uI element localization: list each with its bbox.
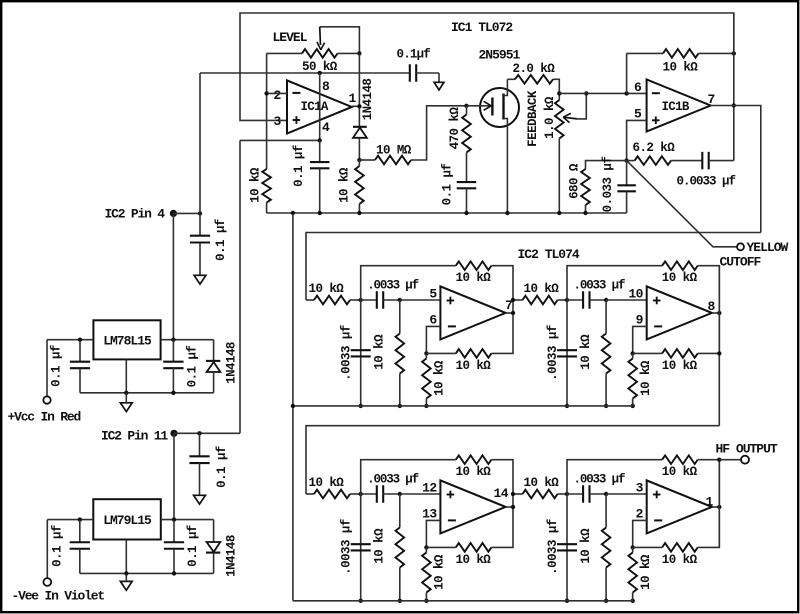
junction stage input node <box>565 298 569 302</box>
label .0033 µf shunt <box>340 325 354 381</box>
junction pin- node <box>631 351 635 355</box>
wire pot-left vertical <box>266 53 268 169</box>
svg-text:.0033 µf: .0033 µf <box>574 473 625 487</box>
capacitor .0033 shunt <box>557 494 577 601</box>
terminal HF OUTPUT <box>741 456 749 464</box>
svg-text:0.1 µf: 0.1 µf <box>185 346 199 388</box>
op-amp minus <box>448 325 456 327</box>
op-amp plus <box>447 297 455 305</box>
svg-text:6.2 kΩ: 6.2 kΩ <box>633 141 676 155</box>
junction bus 559 <box>557 211 561 215</box>
svg-text:10 kΩ: 10 kΩ <box>524 476 560 490</box>
svg-text:IC1 TL072: IC1 TL072 <box>451 20 513 35</box>
svg-text:0.033 µf: 0.033 µf <box>601 157 615 213</box>
op-amp IC1B <box>647 80 711 132</box>
svg-text:HF OUTPUT: HF OUTPUT <box>716 441 778 456</box>
label 0.033 µf <box>601 157 615 213</box>
node IC2 Pin 4 <box>170 210 177 217</box>
junction bus 319 <box>318 211 322 215</box>
label 0.1 µf source <box>441 164 455 206</box>
resistor 10k feedback bottom <box>426 507 513 552</box>
junction 79 out cap bus <box>172 571 176 575</box>
resistor 10k stage input <box>306 490 361 499</box>
label 1.0 kΩ <box>543 96 557 139</box>
wire opamp out <box>712 506 719 508</box>
svg-text:10 kΩ: 10 kΩ <box>662 553 698 567</box>
wire pin- <box>426 326 440 353</box>
label 10 kΩ shunt <box>579 334 593 370</box>
op-amp IC1A minus <box>292 92 300 94</box>
svg-text:680 Ω: 680 Ω <box>568 163 582 199</box>
junction bus 359 <box>357 211 361 215</box>
label +Vcc In Red <box>8 409 81 424</box>
label 10 kΩ gnd <box>639 554 653 590</box>
svg-text:2N5951: 2N5951 <box>479 48 521 63</box>
wire opamp out <box>712 312 719 314</box>
diode 1N4148 D3 <box>206 520 220 574</box>
junction pot right end <box>357 51 361 55</box>
junction shuntC bus <box>359 599 363 603</box>
node IC2 Pin 11 <box>170 430 177 437</box>
op-amp minus <box>448 519 456 521</box>
junction 79 out rail <box>172 517 176 521</box>
label 0.1 µf pin4 bypass <box>214 219 228 261</box>
wire middle bus <box>293 405 633 407</box>
junction bus 292 <box>291 211 295 215</box>
label 10 kΩ shunt <box>579 528 593 564</box>
svg-text:10 kΩ: 10 kΩ <box>663 61 699 75</box>
wire pin6 rail <box>559 92 646 94</box>
op-amp stage <box>647 286 712 339</box>
pin label -in <box>422 507 437 522</box>
label IC1A <box>301 100 329 114</box>
svg-text:10 kΩ: 10 kΩ <box>456 359 492 373</box>
pin label -in <box>636 313 644 328</box>
svg-text:.0033 µf: .0033 µf <box>546 325 560 381</box>
label LEVEL <box>273 30 308 45</box>
wire rail to 78L15 <box>172 213 174 339</box>
label CUTOFF <box>720 254 762 269</box>
wire 78 gnd stem <box>125 393 127 403</box>
svg-text:3: 3 <box>636 481 644 496</box>
pot FEEDBACK wiper <box>563 93 586 122</box>
pin label out <box>494 486 509 501</box>
label 0.1 µf 79 out <box>186 525 200 567</box>
resistor 10k feedback top <box>567 455 719 507</box>
label 10 kΩ fbbot <box>662 359 698 373</box>
label 10 kΩ gnd <box>433 360 447 396</box>
label 10 kΩ vertical diode <box>338 167 352 203</box>
wire pin+ input <box>400 299 441 301</box>
capacitor 0.1uf 79 input <box>70 520 90 574</box>
resistor 10k interstage A <box>513 296 567 305</box>
svg-text:0.1µf: 0.1µf <box>397 48 431 62</box>
label .0033 µf shunt <box>546 519 560 575</box>
resistor 10k feedback top <box>567 261 719 313</box>
wire 78 gnd lead <box>125 359 127 392</box>
svg-text:0.1 µf: 0.1 µf <box>292 145 306 187</box>
svg-text:10 kΩ: 10 kΩ <box>639 554 653 590</box>
svg-text:LM78L15: LM78L15 <box>103 334 152 349</box>
junction pin4 <box>318 138 322 142</box>
svg-text:0.1 µf: 0.1 µf <box>50 345 64 387</box>
svg-text:CUTOFF: CUTOFF <box>720 254 762 269</box>
label 10 kΩ fbtop <box>662 271 698 285</box>
junction bus 585 <box>583 211 587 215</box>
label 10 kΩ fbbot <box>662 553 698 567</box>
label 0.1 µf 78 in <box>50 345 64 387</box>
svg-text:LEVEL: LEVEL <box>273 30 308 45</box>
svg-text:IC1B: IC1B <box>662 100 690 114</box>
svg-text:5: 5 <box>429 287 437 302</box>
wire pin5 <box>627 120 647 160</box>
svg-text:.0033 µf: .0033 µf <box>340 519 354 575</box>
terminal +Vcc <box>43 396 50 403</box>
wire 78 input <box>47 340 93 397</box>
label IC2 Pin 11 <box>101 429 168 444</box>
junction wiper <box>584 91 588 95</box>
op-amp IC1A plus <box>293 116 301 124</box>
resistor 6.2k <box>627 156 703 165</box>
capacitor .0033 shunt <box>557 300 577 406</box>
op-amp plus <box>653 297 661 305</box>
wire cutoff diagonal <box>627 161 737 247</box>
op-amp stage <box>647 480 712 533</box>
ground arrow pin11 bypass <box>194 495 206 504</box>
wire gnd riser <box>292 213 294 601</box>
op-amp minus <box>654 325 662 327</box>
junction out <box>717 505 721 509</box>
junction HF node <box>717 458 721 462</box>
wire pin- <box>426 520 440 547</box>
pin label -in <box>636 507 644 522</box>
junction shuntC bus <box>359 404 363 408</box>
pin label +in <box>429 287 437 302</box>
resistor 10k shunt <box>602 494 611 601</box>
pin label +in <box>636 481 644 496</box>
junction gate-470k <box>464 104 468 108</box>
label 6.2 kΩ <box>633 141 676 155</box>
svg-text:12: 12 <box>422 481 437 496</box>
svg-text:6: 6 <box>634 80 642 95</box>
svg-text:IC2 Pin 11: IC2 Pin 11 <box>101 429 168 444</box>
pin label +in <box>422 481 437 496</box>
resistor 10k shunt <box>396 300 405 406</box>
svg-text:10 kΩ: 10 kΩ <box>662 359 698 373</box>
label 1N4148 D1 <box>361 79 375 121</box>
junction shuntC bus <box>565 599 569 603</box>
junction stage node2 <box>604 298 608 302</box>
capacitor 0.1uf pin11 bypass <box>189 433 209 495</box>
pin label 2 <box>274 88 282 103</box>
capacitor .0033 series <box>567 485 606 503</box>
label 10 kΩ shunt <box>373 334 387 370</box>
svg-text:0.1 µf: 0.1 µf <box>50 525 64 567</box>
wire 79 bottom <box>80 572 214 574</box>
svg-text:10 kΩ: 10 kΩ <box>662 465 698 479</box>
svg-text:3: 3 <box>274 114 282 129</box>
resistor 10k to gnd <box>628 547 637 600</box>
wire 79 gnd lead <box>125 540 127 574</box>
regulator LM79L15 U3 <box>93 499 161 539</box>
op-amp plus <box>447 491 455 499</box>
svg-text:10 kΩ: 10 kΩ <box>309 476 345 490</box>
label 10 kΩ stage input <box>309 282 345 296</box>
resistor 10k stage input <box>306 296 361 305</box>
junction stage2 fbb <box>717 351 721 355</box>
svg-text:.0033 µf: .0033 µf <box>340 325 354 381</box>
svg-text:13: 13 <box>422 507 437 522</box>
wire top feedback (IC1B pin7 to IC1A pin3) <box>240 13 734 120</box>
svg-text:+Vcc In Red: +Vcc In Red <box>8 409 81 424</box>
resistor 10k feedback bottom <box>426 313 513 358</box>
capacitor 0.1uf 78 output <box>163 340 183 393</box>
resistor 10k to gnd <box>422 547 431 600</box>
capacitor 0.1uf source filter <box>457 153 477 214</box>
junction fb right <box>732 51 736 55</box>
junction shuntR bus <box>398 599 402 603</box>
label 0.0033 µf IC1B <box>677 175 736 189</box>
junction stage input node <box>359 298 363 302</box>
svg-text:IC2 Pin 4: IC2 Pin 4 <box>105 207 166 222</box>
junction 79 in cap <box>78 517 82 521</box>
resistor 10k under diode <box>355 160 364 213</box>
resistor 10k pin2-gnd <box>262 169 271 213</box>
resistor 2.0k <box>507 75 559 100</box>
svg-text:4: 4 <box>322 120 330 135</box>
op-amp stage <box>440 480 505 533</box>
label 1N4148 D3 <box>225 535 239 577</box>
capacitor .0033 series <box>567 291 606 309</box>
svg-text:5: 5 <box>634 107 642 122</box>
label 0.1 µf pin11 bypass <box>215 446 229 488</box>
diode 1N4148 D2 <box>206 340 220 393</box>
label 10 kΩ IC1B fb <box>663 61 699 75</box>
pin label -in <box>429 313 437 328</box>
svg-text:2.0 kΩ: 2.0 kΩ <box>513 62 556 76</box>
capacitor 0.1uf pin4 bypass <box>190 213 210 275</box>
wire stage2 out riser <box>718 266 720 426</box>
resistor 10k feedback bottom <box>633 507 720 552</box>
wire pin8-pin4 vertical <box>319 73 321 140</box>
capacitor 0.1uf 79 output <box>164 520 184 574</box>
label HF OUTPUT <box>716 441 778 456</box>
label 470 kΩ <box>448 107 462 150</box>
wire opamp out <box>506 312 513 314</box>
svg-text:0.0033 µf: 0.0033 µf <box>677 175 736 189</box>
label .0033 µf series <box>574 279 625 293</box>
label -Vee In Violet <box>12 588 105 603</box>
label 10 kΩ shunt <box>373 528 387 564</box>
junction pin- node <box>424 545 428 549</box>
pin label 1 <box>349 91 357 106</box>
svg-text:2: 2 <box>636 507 644 522</box>
junction out <box>511 311 515 315</box>
resistor 470k <box>462 106 471 153</box>
svg-text:1.0 kΩ: 1.0 kΩ <box>543 96 557 139</box>
svg-text:10 kΩ: 10 kΩ <box>456 553 492 567</box>
label 680 Ω <box>568 163 582 199</box>
pin label 4 <box>322 120 330 135</box>
capacitor 0.1uf pin4 bypass <box>310 140 330 213</box>
ground arrow pin4 bypass <box>194 275 206 284</box>
svg-text:10 kΩ: 10 kΩ <box>579 334 593 370</box>
resistor 680 <box>581 161 626 213</box>
junction pin6 tap <box>624 91 628 95</box>
svg-text:10 kΩ: 10 kΩ <box>373 334 387 370</box>
junction stage input node <box>359 492 363 496</box>
wire pin2 <box>267 92 287 94</box>
pin label 7 <box>708 92 715 107</box>
label 10 kΩ fbtop <box>662 465 698 479</box>
label 10 kΩ vertical pin2 <box>249 167 263 203</box>
label 10 kΩ gnd <box>639 360 653 396</box>
junction interstage B <box>511 492 515 496</box>
capacitor .0033 shunt <box>351 494 371 601</box>
label 10 kΩ interstage B <box>524 476 560 490</box>
svg-text:10 kΩ: 10 kΩ <box>456 465 492 479</box>
ground arrow V+ bypass <box>434 82 444 90</box>
pin label 6 <box>634 80 642 95</box>
label YELLOW <box>747 240 789 255</box>
svg-text:LM79L15: LM79L15 <box>103 513 152 528</box>
junction stage node2 <box>398 298 402 302</box>
wire pin11 rail <box>174 432 240 434</box>
junction gndR bus <box>631 404 635 408</box>
svg-text:10 kΩ: 10 kΩ <box>309 282 345 296</box>
ground arrow 78 <box>120 403 132 412</box>
label 0.1 µf pin4cap <box>292 145 306 187</box>
capacitor 0.1uf V+ bypass <box>410 64 439 82</box>
wire top circuit bus <box>267 212 627 214</box>
wire 78 output <box>161 339 214 341</box>
svg-text:10 kΩ: 10 kΩ <box>662 271 698 285</box>
label 1N4148 D2 <box>224 342 238 384</box>
junction shuntR bus <box>604 599 608 603</box>
pot LEVEL wiper arm wire <box>320 27 360 54</box>
junction pin4 bypass <box>198 211 202 215</box>
svg-text:10 kΩ: 10 kΩ <box>373 528 387 564</box>
resistor 10k feedback top <box>361 455 513 507</box>
junction diode-10M node <box>357 158 361 162</box>
wire 79 output <box>161 519 214 521</box>
svg-text:10 kΩ: 10 kΩ <box>338 167 352 203</box>
junction pin7 <box>732 103 736 107</box>
op-amp stage <box>440 286 505 339</box>
wire V+ riser <box>199 73 201 213</box>
label FEEDBACK <box>526 90 540 147</box>
junction stage node2 <box>398 492 402 496</box>
svg-text:10 kΩ: 10 kΩ <box>579 528 593 564</box>
junction shuntR bus <box>604 404 608 408</box>
junction bus 466 <box>464 211 468 215</box>
svg-text:10 kΩ: 10 kΩ <box>249 167 263 203</box>
capacitor .0033 series <box>361 291 400 309</box>
wire 78 bottom <box>80 392 214 394</box>
resistor 10k IC1B feedback <box>627 49 734 93</box>
wire pin4 rail <box>173 212 200 214</box>
svg-text:10 MΩ: 10 MΩ <box>376 144 412 158</box>
wire pin+ input <box>400 493 441 495</box>
junction pin8 tap <box>318 71 322 75</box>
label 10 MΩ <box>376 144 412 158</box>
junction 79 gnd <box>124 571 128 575</box>
resistor 10k shunt <box>396 494 405 601</box>
label .0033 µf series <box>574 473 625 487</box>
svg-text:8: 8 <box>322 79 330 94</box>
potentiometer FEEDBACK 1.0k <box>555 100 564 213</box>
pin label 8 <box>322 79 330 94</box>
wire stage2-stage3 route <box>306 426 719 494</box>
op-amp minus <box>654 519 662 521</box>
pin label 3 <box>274 114 282 129</box>
wire filter input route <box>306 233 761 301</box>
wire 79 gnd stem <box>125 573 127 581</box>
junction 78 in cap <box>78 338 82 342</box>
svg-text:10 kΩ: 10 kΩ <box>433 360 447 396</box>
capacitor 0.1uf 78 input <box>70 340 90 393</box>
wire pin+ input <box>606 299 647 301</box>
svg-text:10 kΩ: 10 kΩ <box>456 271 492 285</box>
svg-text:0.1 µf: 0.1 µf <box>186 525 200 567</box>
transistor 2N5951 Q1 <box>467 79 520 213</box>
capacitor .0033 shunt <box>351 300 371 406</box>
junction pin5 node <box>624 158 628 162</box>
svg-text:IC1A: IC1A <box>301 100 329 114</box>
wire pin+ input <box>606 493 647 495</box>
svg-text:1: 1 <box>349 91 357 106</box>
svg-text:9: 9 <box>636 313 644 328</box>
label IC2 Pin 4 <box>105 207 166 222</box>
resistor 10k to gnd <box>422 353 431 406</box>
svg-text:10: 10 <box>628 287 643 302</box>
wire lower bus <box>293 600 633 602</box>
svg-text:470 kΩ: 470 kΩ <box>448 107 462 150</box>
regulator LM78L15 U2 <box>93 320 160 359</box>
op-amp IC1B plus <box>652 117 660 125</box>
wire mid bus right end <box>632 399 634 406</box>
junction out <box>511 505 515 509</box>
wire V+ rail y73 <box>200 72 410 74</box>
wire pin- <box>633 326 647 353</box>
junction 78 gnd <box>124 391 128 395</box>
wire rail to 79L15 <box>173 433 175 519</box>
resistor 10k feedback bottom <box>633 313 720 358</box>
svg-text:.0033 µf: .0033 µf <box>367 279 418 293</box>
junction pin2 <box>264 91 268 95</box>
junction 78 out cap bus <box>171 391 175 395</box>
svg-text:YELLOW: YELLOW <box>747 240 789 255</box>
svg-text:0.1 µf: 0.1 µf <box>215 446 229 488</box>
label .0033 µf series <box>367 279 418 293</box>
svg-text:2: 2 <box>274 88 282 103</box>
junction pin- node <box>631 545 635 549</box>
junction out <box>717 311 721 315</box>
wire pin1 column <box>352 53 360 126</box>
capacitor 0.0033uf IC1B <box>702 152 734 170</box>
svg-text:1N4148: 1N4148 <box>225 535 239 577</box>
label LM79L15 <box>103 513 152 528</box>
label 0.1 µf 78 out <box>185 346 199 388</box>
svg-text:14: 14 <box>494 486 509 501</box>
svg-text:8: 8 <box>708 299 716 314</box>
junction gndR bus <box>424 599 428 603</box>
junction gndR bus <box>631 599 635 603</box>
wire pin- <box>633 520 647 547</box>
wire lower bus right end <box>632 593 634 601</box>
label 0.1 µf 79 in <box>50 525 64 567</box>
wire pin4 to V- riser <box>240 140 320 433</box>
